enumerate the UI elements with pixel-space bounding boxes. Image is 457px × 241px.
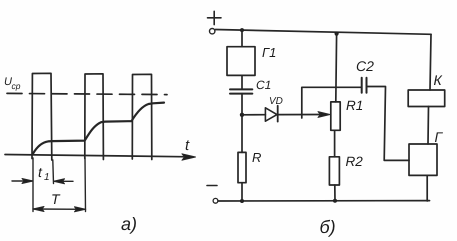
plus terminal (208, 11, 222, 34)
wire R1 to R2 (334, 130, 336, 157)
svg-text:а): а) (121, 214, 137, 234)
wire C1 to node (241, 94, 243, 115)
extension line at pulse2 left edge (84, 158, 87, 212)
svg-text:T: T (51, 191, 61, 207)
generator G1 box (227, 47, 255, 76)
time axis t (5, 154, 196, 160)
wire rail to G1 (241, 30, 243, 47)
minus terminal (207, 186, 218, 204)
svg-text:Г1: Г1 (262, 45, 276, 60)
wire rail to R1 top (335, 34, 338, 102)
top supply rail (216, 30, 432, 35)
svg-text:t: t (38, 164, 43, 180)
potentiometer R1 (331, 102, 340, 130)
box G (trigger) (409, 144, 437, 175)
svg-text:Г: Г (435, 129, 444, 145)
svg-text:б): б) (320, 217, 336, 237)
svg-text:t: t (185, 137, 190, 154)
wire R2 to rail (334, 185, 336, 201)
extension line at pulse1 left edge (32, 158, 34, 212)
junction node on top rail (R1 branch) (335, 31, 339, 35)
junction node on bottom rail (R2 branch) (333, 199, 337, 203)
svg-text:1: 1 (44, 172, 50, 183)
capacitor C1 (230, 89, 252, 93)
svg-text:ср: ср (12, 81, 21, 91)
resistor R2 (329, 157, 339, 185)
label t1 (38, 164, 50, 183)
wire C2 to G box (367, 87, 410, 161)
dashed average level line (7, 93, 167, 94)
svg-text:R1: R1 (346, 98, 363, 113)
wire G box to bottom rail (426, 175, 428, 201)
svg-text:С1: С1 (256, 78, 271, 92)
pulse 2 (85, 74, 104, 160)
dimension tau (33, 207, 86, 212)
pulse 1 (32, 73, 52, 160)
junction node on top rail (left branch) (240, 28, 244, 32)
svg-text:R: R (252, 150, 261, 165)
svg-text:R2: R2 (346, 154, 364, 169)
wire G1 to C1 (241, 75, 243, 89)
wire node to diode (242, 114, 265, 116)
svg-text:К: К (434, 72, 443, 88)
wire R and bottom (241, 115, 243, 201)
svg-text:VD: VD (269, 96, 283, 107)
capacitor C2 (362, 78, 367, 93)
relay K box (408, 90, 445, 107)
wire wiper to C2 (hook up) (302, 87, 362, 118)
charging curve (33, 103, 164, 154)
resistor R (238, 152, 246, 182)
junction node on bottom rail (R branch) (240, 199, 244, 203)
wire K to G box (427, 107, 430, 145)
dimension t1 (12, 179, 73, 184)
pulse 3 (132, 74, 152, 159)
junction node at diode input (240, 113, 244, 117)
svg-text:C2: C2 (356, 58, 374, 74)
label Ucp (4, 76, 21, 91)
bottom supply rail (218, 200, 430, 202)
wire rail to K (430, 34, 431, 90)
extension line at pulse1 right edge (52, 160, 55, 184)
wire diode to R1 wiper arrow (278, 112, 330, 118)
diode VD (265, 106, 277, 122)
